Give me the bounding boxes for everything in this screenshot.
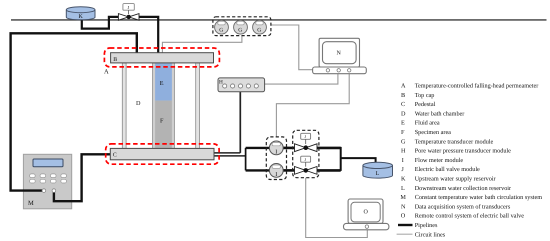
svg-text:J: J (127, 5, 129, 10)
svg-text:M: M (28, 200, 34, 207)
svg-text:Circuit lines: Circuit lines (415, 231, 446, 238)
svg-text:B: B (113, 57, 117, 63)
svg-text:I: I (402, 157, 404, 164)
svg-text:Upstream water supply reservoi: Upstream water supply reservoir (415, 176, 496, 183)
svg-text:Pore water pressure transducer: Pore water pressure transducer module (415, 148, 511, 155)
svg-text:I: I (275, 172, 277, 178)
svg-text:Remote control system of elect: Remote control system of electric ball v… (415, 213, 525, 220)
svg-text:A: A (104, 69, 109, 76)
svg-text:E: E (160, 80, 164, 87)
svg-text:G: G (219, 28, 223, 34)
svg-text:G: G (401, 138, 406, 145)
svg-text:Top cap: Top cap (415, 92, 435, 99)
svg-text:Downstream water collection re: Downstream water collection reservoir (415, 185, 511, 192)
svg-text:C: C (113, 153, 117, 159)
svg-text:C: C (401, 101, 405, 108)
svg-text:D: D (401, 110, 406, 117)
svg-text:M: M (400, 194, 406, 201)
svg-text:Data acquisition system of tra: Data acquisition system of transducers (415, 203, 511, 210)
svg-text:H: H (401, 148, 406, 155)
svg-text:Specimen area: Specimen area (415, 129, 451, 136)
svg-text:F: F (401, 129, 405, 136)
svg-text:L: L (401, 185, 405, 192)
svg-text:G: G (257, 28, 261, 34)
svg-text:N: N (401, 203, 406, 210)
svg-text:Pipelines: Pipelines (415, 222, 438, 229)
svg-text:Flow meter module: Flow meter module (415, 157, 464, 164)
svg-text:Water bath chamber: Water bath chamber (415, 110, 465, 117)
svg-text:L: L (376, 171, 380, 177)
svg-text:H: H (219, 79, 223, 85)
svg-text:Pedestal: Pedestal (415, 101, 436, 108)
svg-text:Fluid area: Fluid area (415, 120, 440, 127)
svg-text:J: J (401, 166, 404, 173)
svg-text:K: K (79, 14, 84, 20)
svg-text:E: E (401, 120, 405, 127)
svg-text:N: N (337, 51, 342, 57)
svg-text:A: A (401, 83, 406, 90)
svg-text:B: B (401, 92, 405, 99)
svg-text:I: I (275, 150, 277, 156)
svg-text:G: G (238, 28, 242, 34)
svg-text:F: F (160, 118, 164, 125)
svg-text:Temperature-controlled falling: Temperature-controlled falling-head perm… (415, 83, 539, 90)
svg-text:O: O (364, 210, 369, 216)
svg-text:D: D (136, 100, 141, 107)
svg-text:Electric ball valve module: Electric ball valve module (415, 166, 480, 173)
svg-text:Constant temperature water bat: Constant temperature water bath circulat… (415, 194, 543, 201)
svg-text:O: O (401, 213, 406, 220)
svg-text:K: K (401, 176, 406, 183)
svg-text:Temperature transducer module: Temperature transducer module (415, 138, 494, 145)
